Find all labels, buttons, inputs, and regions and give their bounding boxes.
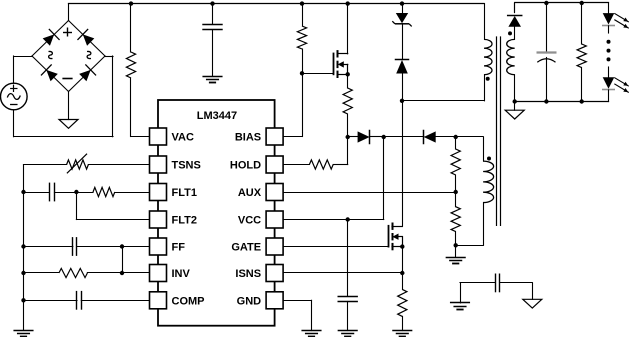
svg-text:VAC: VAC: [172, 132, 194, 144]
svg-text:AUX: AUX: [238, 187, 262, 199]
svg-text:GND: GND: [237, 295, 262, 307]
svg-text:HOLD: HOLD: [230, 160, 261, 172]
svg-text:FLT2: FLT2: [172, 215, 197, 227]
svg-text:LM3447: LM3447: [197, 110, 237, 122]
svg-text:FLT1: FLT1: [172, 187, 197, 199]
svg-text:BIAS: BIAS: [235, 132, 261, 144]
svg-text:INV: INV: [172, 268, 191, 280]
svg-text:ISNS: ISNS: [235, 268, 261, 280]
svg-text:FF: FF: [172, 242, 186, 254]
svg-text:TSNS: TSNS: [172, 160, 201, 172]
svg-text:GATE: GATE: [231, 242, 261, 254]
svg-text:COMP: COMP: [172, 295, 205, 307]
svg-text:VCC: VCC: [238, 215, 261, 227]
